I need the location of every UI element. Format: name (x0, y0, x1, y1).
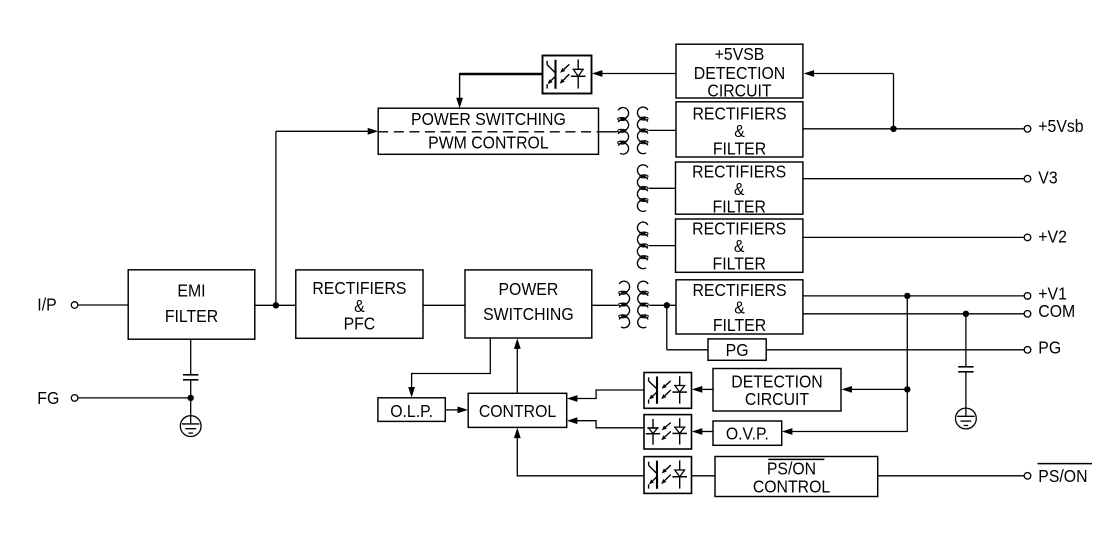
svg-text:FILTER: FILTER (713, 197, 766, 217)
svg-text:V3: V3 (1038, 167, 1057, 187)
svg-text:FILTER: FILTER (165, 306, 218, 326)
svg-text:CIRCUIT: CIRCUIT (707, 81, 771, 101)
svg-text:EMI: EMI (177, 281, 205, 301)
svg-text:PG: PG (726, 340, 749, 360)
svg-text:+5Vsb: +5Vsb (1038, 116, 1083, 136)
svg-text:PS/ON: PS/ON (1038, 466, 1087, 486)
svg-text:PG: PG (1038, 338, 1061, 358)
svg-text:O.V.P.: O.V.P. (726, 424, 769, 444)
svg-text:PS/ON: PS/ON (767, 458, 816, 478)
svg-text:I/P: I/P (37, 294, 56, 314)
svg-text:CIRCUIT: CIRCUIT (745, 389, 809, 409)
svg-text:PFC: PFC (344, 314, 376, 334)
svg-text:CONTROL: CONTROL (753, 477, 830, 497)
svg-text:POWER SWITCHING: POWER SWITCHING (411, 109, 566, 129)
svg-text:FG: FG (37, 388, 59, 408)
svg-text:+V2: +V2 (1038, 226, 1067, 246)
svg-text:FILTER: FILTER (713, 139, 766, 159)
svg-text:COM: COM (1038, 301, 1075, 321)
svg-text:O.L.P.: O.L.P. (390, 401, 433, 421)
svg-text:+5VSB: +5VSB (715, 44, 765, 64)
svg-text:FILTER: FILTER (713, 254, 766, 274)
svg-text:FILTER: FILTER (713, 315, 766, 335)
svg-text:SWITCHING: SWITCHING (483, 304, 574, 324)
svg-text:CONTROL: CONTROL (479, 401, 556, 421)
svg-text:POWER: POWER (499, 279, 559, 299)
svg-text:PWM CONTROL: PWM CONTROL (428, 132, 548, 152)
